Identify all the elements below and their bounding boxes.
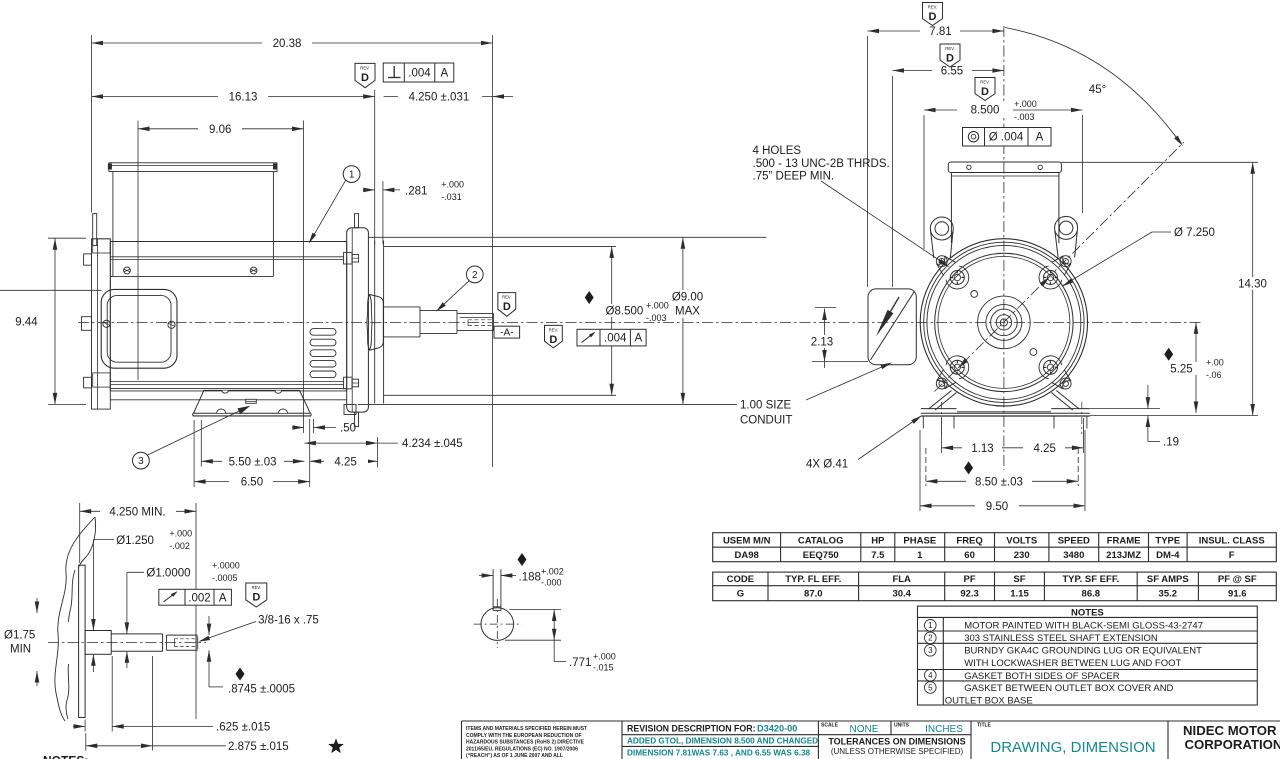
svg-text:2.875 ±.015: 2.875 ±.015: [228, 741, 289, 753]
svg-text:D: D: [252, 591, 260, 603]
svg-text:SF: SF: [1013, 574, 1025, 585]
svg-text:TOLERANCES ON DIMENSIONS: TOLERANCES ON DIMENSIONS: [828, 736, 965, 746]
svg-text:9.06: 9.06: [209, 124, 231, 136]
svg-text:+.002: +.002: [541, 566, 564, 576]
svg-text:FRAME: FRAME: [1107, 535, 1141, 546]
svg-text:REVISION DESCRIPTION FOR:: REVISION DESCRIPTION FOR:: [627, 724, 756, 734]
svg-text:1.00 SIZE: 1.00 SIZE: [740, 400, 791, 412]
svg-text:9.50: 9.50: [986, 501, 1008, 513]
svg-text:DM-4: DM-4: [1156, 550, 1180, 561]
svg-text:D: D: [946, 52, 954, 64]
svg-text:.8745 ±.0005: .8745 ±.0005: [228, 684, 295, 696]
svg-text:4.250 ±.031: 4.250 ±.031: [409, 92, 470, 104]
svg-text:30.4: 30.4: [892, 589, 911, 600]
svg-text:.004: .004: [604, 333, 627, 345]
svg-text:+.000: +.000: [169, 528, 192, 538]
svg-text:2: 2: [928, 634, 933, 643]
svg-text:G: G: [737, 589, 744, 600]
svg-text:86.8: 86.8: [1082, 589, 1101, 600]
svg-text:SF AMPS: SF AMPS: [1147, 574, 1189, 585]
svg-text:+.00: +.00: [1206, 357, 1224, 367]
svg-text:+.000: +.000: [646, 300, 669, 310]
svg-text:-A-: -A-: [500, 328, 513, 339]
svg-text:DA98: DA98: [735, 550, 759, 561]
svg-text:GASKET BOTH SIDES OF SPACER: GASKET BOTH SIDES OF SPACER: [964, 671, 1120, 682]
svg-text:FREQ: FREQ: [956, 535, 982, 546]
svg-text:-.003: -.003: [1014, 112, 1035, 122]
svg-text:(UNLESS OTHERWISE SPECIFIED): (UNLESS OTHERWISE SPECIFIED): [831, 747, 964, 756]
svg-text:WITH LOCKWASHER BETWEEN LUG AN: WITH LOCKWASHER BETWEEN LUG AND FOOT: [964, 658, 1181, 669]
svg-text:NONE: NONE: [850, 724, 879, 735]
svg-text:VOLTS: VOLTS: [1006, 535, 1037, 546]
svg-text:INCHES: INCHES: [925, 724, 963, 735]
svg-text:+.000: +.000: [1014, 99, 1037, 109]
svg-text:-.031: -.031: [441, 192, 462, 202]
svg-text:1.15: 1.15: [1010, 589, 1029, 600]
svg-text:CORPORATION: CORPORATION: [1185, 737, 1280, 752]
svg-text:-.000: -.000: [541, 578, 562, 588]
svg-text:2: 2: [472, 270, 478, 281]
svg-text:ADDED GTOL, DIMENSION 8.500 AN: ADDED GTOL, DIMENSION 8.500 AND CHANGED: [627, 737, 818, 746]
svg-text:-.06: -.06: [1206, 370, 1222, 380]
svg-text:4.234 ±.045: 4.234 ±.045: [402, 438, 463, 450]
svg-text:PF: PF: [964, 574, 976, 585]
svg-text:A: A: [440, 68, 448, 80]
svg-text:USEM M/N: USEM M/N: [723, 535, 771, 546]
svg-text:NIDEC MOTOR: NIDEC MOTOR: [1183, 723, 1277, 738]
svg-text:TYP. FL EFF.: TYP. FL EFF.: [785, 574, 841, 585]
svg-text:1: 1: [928, 621, 933, 630]
svg-text:MIN: MIN: [10, 644, 31, 656]
svg-text:EEQ750: EEQ750: [803, 550, 839, 561]
svg-text:HP: HP: [871, 535, 885, 546]
svg-text:COMPLY WITH THE EUROPEAN REDUC: COMPLY WITH THE EUROPEAN REDUCTION OF: [466, 733, 582, 739]
svg-text:4 HOLES: 4 HOLES: [753, 145, 802, 157]
svg-text:4.250 MIN.: 4.250 MIN.: [109, 506, 165, 518]
svg-text:GASKET BETWEEN OUTLET BOX COVE: GASKET BETWEEN OUTLET BOX COVER AND: [964, 683, 1173, 694]
svg-text:TYPE: TYPE: [1155, 535, 1180, 546]
svg-text:.188: .188: [519, 571, 541, 583]
svg-text:4.25: 4.25: [1034, 443, 1056, 455]
svg-text:1.13: 1.13: [971, 443, 993, 455]
svg-text:92.3: 92.3: [960, 589, 979, 600]
svg-text:F: F: [1229, 550, 1235, 561]
svg-text:60: 60: [964, 550, 975, 561]
svg-text:Ø1.0000: Ø1.0000: [146, 567, 190, 579]
svg-text:.75” DEEP MIN.: .75” DEEP MIN.: [753, 171, 835, 183]
svg-text:A: A: [1036, 132, 1044, 144]
svg-text:7.81: 7.81: [929, 26, 951, 38]
svg-text:213JMZ: 213JMZ: [1106, 550, 1141, 561]
svg-text:SPEED: SPEED: [1058, 535, 1090, 546]
svg-text:87.0: 87.0: [804, 589, 823, 600]
svg-text:TITLE: TITLE: [977, 722, 992, 728]
svg-text:.625 ±.015: .625 ±.015: [216, 721, 270, 733]
svg-text:REV.: REV.: [252, 585, 261, 590]
svg-text:230: 230: [1014, 550, 1030, 561]
svg-text:TYP. SF EFF.: TYP. SF EFF.: [1062, 574, 1119, 585]
svg-text:D: D: [549, 334, 557, 346]
svg-text:PF @ SF: PF @ SF: [1218, 574, 1257, 585]
svg-text:D: D: [929, 11, 937, 23]
svg-text:A: A: [634, 333, 642, 345]
svg-text:Ø9.00: Ø9.00: [672, 292, 703, 304]
svg-text:Ø8.500: Ø8.500: [606, 305, 644, 317]
svg-text:16.13: 16.13: [229, 92, 258, 104]
svg-text:91.6: 91.6: [1228, 589, 1247, 600]
svg-text:D3420-00: D3420-00: [757, 724, 797, 734]
svg-text:-.015: -.015: [593, 662, 614, 672]
svg-text:INSUL. CLASS: INSUL. CLASS: [1199, 535, 1265, 546]
svg-text:CODE: CODE: [727, 574, 754, 585]
svg-text:Ø1.75: Ø1.75: [4, 630, 35, 642]
svg-text:+.0000: +.0000: [212, 560, 240, 570]
svg-text:UNITS: UNITS: [894, 722, 910, 728]
svg-text:REV.: REV.: [945, 46, 954, 51]
svg-text:MAX: MAX: [675, 305, 700, 317]
svg-text:4: 4: [928, 671, 933, 680]
svg-text:3: 3: [928, 646, 933, 655]
svg-text:3/8-16 x .75: 3/8-16 x .75: [258, 614, 319, 626]
svg-text:Ø 7.250: Ø 7.250: [1174, 227, 1215, 239]
svg-text:Ø1.250: Ø1.250: [116, 535, 154, 547]
svg-text:6.55: 6.55: [941, 66, 963, 78]
svg-text:1: 1: [917, 550, 923, 561]
svg-text:Ø .004: Ø .004: [989, 132, 1024, 144]
svg-text:REV.: REV.: [980, 80, 989, 85]
svg-text:14.30: 14.30: [1238, 279, 1267, 291]
svg-text:CATALOG: CATALOG: [798, 535, 844, 546]
svg-text:303 STAINLESS STEEL SHAFT EXTE: 303 STAINLESS STEEL SHAFT EXTENSION: [964, 633, 1158, 644]
svg-text:7.5: 7.5: [871, 550, 885, 561]
svg-text:1: 1: [349, 170, 355, 181]
svg-text:MOTOR PAINTED WITH BLACK-SEMI: MOTOR PAINTED WITH BLACK-SEMI GLOSS-43-2…: [964, 621, 1203, 632]
svg-text:4.25: 4.25: [334, 456, 356, 468]
svg-text:DIMENSION 7.81WAS 7.63 , AND 6: DIMENSION 7.81WAS 7.63 , AND 6.55 WAS 6.…: [627, 749, 811, 758]
svg-text:45°: 45°: [1089, 84, 1106, 96]
svg-text:NOTES:: NOTES:: [43, 754, 88, 759]
svg-text:8.500: 8.500: [971, 105, 1000, 117]
svg-text:.19: .19: [1163, 436, 1179, 448]
svg-text:5.50 ±.03: 5.50 ±.03: [229, 456, 277, 468]
svg-text:-.0005: -.0005: [212, 573, 238, 583]
svg-text:SCALE: SCALE: [821, 722, 839, 728]
svg-text:D: D: [503, 301, 511, 313]
svg-text:NOTES: NOTES: [1071, 607, 1104, 618]
svg-text:HAZARDOUS SUBSTANCES (RoHS 2): HAZARDOUS SUBSTANCES (RoHS 2) DIRECTIVE: [466, 740, 585, 746]
svg-text:D: D: [361, 72, 369, 84]
svg-text:5.25: 5.25: [1170, 364, 1192, 376]
svg-text:2.13: 2.13: [811, 337, 833, 349]
svg-text:REV.: REV.: [928, 5, 937, 10]
svg-text:5: 5: [928, 683, 933, 692]
svg-text:REV.: REV.: [502, 295, 511, 300]
svg-text:.500 - 13 UNC-2B THRDS.: .500 - 13 UNC-2B THRDS.: [753, 158, 890, 170]
svg-text:+.000: +.000: [441, 180, 464, 190]
svg-text:FLA: FLA: [892, 574, 911, 585]
svg-text:.281: .281: [405, 186, 427, 198]
svg-text:.771: .771: [569, 657, 591, 669]
svg-text:REV.: REV.: [360, 65, 369, 70]
svg-text:35.2: 35.2: [1159, 589, 1178, 600]
svg-text:D: D: [981, 86, 989, 98]
svg-text:.004: .004: [408, 68, 431, 80]
svg-text:3480: 3480: [1063, 550, 1084, 561]
svg-text:CONDUIT: CONDUIT: [740, 415, 792, 427]
svg-text:8.50 ±.03: 8.50 ±.03: [975, 476, 1023, 488]
svg-text:9.44: 9.44: [15, 317, 38, 329]
svg-text:2011/65/EU, REGULATIONS (EC) N: 2011/65/EU, REGULATIONS (EC) NO. 1907/20…: [466, 746, 578, 752]
svg-text:.50: .50: [340, 423, 356, 435]
svg-text:-.002: -.002: [169, 541, 190, 551]
svg-text:OUTLET BOX BASE: OUTLET BOX BASE: [945, 695, 1033, 706]
svg-text:A: A: [219, 593, 227, 605]
svg-text:+.000: +.000: [593, 651, 616, 661]
svg-text:REV.: REV.: [549, 327, 558, 332]
svg-text:20.38: 20.38: [273, 38, 302, 50]
svg-text:(“REACH”) AS OF 1 JUNE 2007 AN: (“REACH”) AS OF 1 JUNE 2007 AND ALL: [466, 753, 563, 759]
svg-text:.002: .002: [188, 593, 210, 605]
svg-text:6.50: 6.50: [241, 477, 263, 489]
svg-text:PHASE: PHASE: [903, 535, 936, 546]
svg-text:DRAWING, DIMENSION: DRAWING, DIMENSION: [990, 739, 1155, 756]
svg-text:BURNDY GKA4C GROUNDING LUG OR: BURNDY GKA4C GROUNDING LUG OR EQUIVALENT: [964, 646, 1202, 657]
svg-text:-.003: -.003: [646, 313, 667, 323]
svg-text:3: 3: [138, 456, 144, 467]
svg-text:ITEMS AND MATERIALS SPECIFIED: ITEMS AND MATERIALS SPECIFIED HEREIN MUS…: [466, 726, 587, 732]
svg-text:4X Ø.41: 4X Ø.41: [806, 459, 848, 471]
